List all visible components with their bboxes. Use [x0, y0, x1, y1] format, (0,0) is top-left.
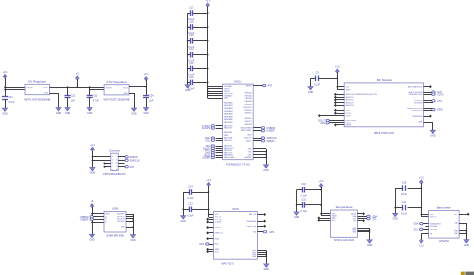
- svg-text:RESET_N: RESET_N: [215, 233, 224, 235]
- power flag +3.3 reg: [144, 73, 149, 80]
- svg-text:GND: GND: [89, 239, 95, 242]
- svg-text:RTS/DIO6: RTS/DIO6: [414, 102, 422, 104]
- terminal gps 219.2: [206, 218, 209, 221]
- capacitor C26: [401, 182, 408, 197]
- wire C9 to +3.3: [318, 78, 337, 80]
- ground G7 bank: [185, 85, 191, 92]
- wire baro scl: [422, 229, 429, 231]
- wire C21 to gnd: [5, 99, 7, 108]
- svg-text:+3.3: +3.3: [90, 144, 95, 147]
- wire gps rxd: [208, 244, 213, 246]
- svg-text:GND: GND: [56, 112, 62, 115]
- port SWDCLK mcu: [261, 137, 277, 140]
- capacitor C15: [301, 198, 308, 213]
- svg-text:CTS: CTS: [437, 100, 442, 103]
- junction C23: [89, 86, 91, 88]
- ground G15 gps: [264, 264, 270, 271]
- port SDA temp: [367, 215, 378, 218]
- power flag +3.3 bank: [205, 0, 210, 6]
- wire comms p6: [118, 163, 124, 165]
- wire MCU CTS: [216, 152, 223, 154]
- svg-text:5: 5: [112, 163, 113, 165]
- wire temp stub 220.2: [320, 220, 330, 222]
- svg-text:SLPO: SLPO: [437, 93, 444, 96]
- wire gps ANT_ON: [257, 214, 263, 216]
- baro right pin names: [454, 214, 459, 235]
- svg-text:PA11/RXD: PA11/RXD: [224, 127, 233, 130]
- svg-text:USBDP: USBDP: [266, 130, 275, 133]
- port GPS rxd: [199, 243, 209, 246]
- terminal comms p5: [104, 163, 106, 165]
- svg-text:GND: GND: [264, 268, 270, 271]
- svg-text:PA24/USBDM: PA24/USBDM: [241, 126, 252, 129]
- svg-text:PB22/D0: PB22/D0: [245, 110, 252, 112]
- svg-text:C9: C9: [315, 72, 319, 75]
- svg-text:C16: C16: [302, 183, 307, 186]
- svg-text:C17: C17: [189, 7, 194, 10]
- svg-text:C23: C23: [93, 94, 98, 97]
- terminal AD 97.2: [334, 96, 337, 99]
- port DOUT rf: [321, 122, 330, 125]
- wire +5 stub: [77, 79, 79, 87]
- svg-text:C18: C18: [189, 20, 194, 23]
- svg-text:SDA: SDA: [413, 223, 418, 226]
- wire comms p5: [105, 163, 111, 165]
- terminal baro int1: [467, 213, 470, 216]
- terminal gps 227.5: [206, 226, 209, 229]
- port SLEEPRQ: [432, 91, 442, 94]
- svg-text:SDO/SA0: SDO/SA0: [430, 225, 438, 228]
- svg-text:PB01/A2: PB01/A2: [245, 94, 252, 97]
- svg-text:+3.3: +3.3: [419, 245, 424, 248]
- wire MCU RTS: [216, 150, 223, 152]
- junction baro gnd rail: [394, 207, 396, 209]
- power flag +3.3 gps: [206, 179, 211, 186]
- power flag +3.3 baro: [419, 177, 424, 184]
- capacitor C12: [401, 201, 408, 216]
- wire comms rst: [118, 166, 126, 168]
- svg-text:GND: GND: [308, 91, 314, 94]
- terminal comms p7: [104, 166, 106, 168]
- wire RF AD stub 105.4: [337, 105, 345, 107]
- capacitor C15: [188, 62, 195, 77]
- svg-text:PA20/D6: PA20/D6: [245, 117, 252, 120]
- junction temp gnd: [369, 229, 371, 231]
- watermark logo: [461, 272, 474, 275]
- wire temp scl: [357, 218, 367, 220]
- capacitor C24: [143, 94, 154, 102]
- terminal RESERVED: [429, 115, 432, 118]
- svg-text:MCP1703T-3302E/MB: MCP1703T-3302E/MB: [104, 98, 130, 102]
- wire gps stub 222: [209, 222, 214, 224]
- svg-text:0.1uF: 0.1uF: [401, 213, 408, 216]
- wire temp sda: [357, 216, 367, 218]
- wire RF RESET stub: [337, 124, 345, 126]
- svg-text:PA06/AIN6: PA06/AIN6: [224, 118, 233, 121]
- wire baro pwr rail: [408, 183, 429, 217]
- svg-text:0.1uF: 0.1uF: [401, 193, 408, 196]
- svg-text:2: 2: [116, 156, 117, 158]
- svg-text:RESET: RESET: [246, 85, 253, 87]
- wire cap row C17: [188, 13, 208, 15]
- power flag +3.3 temp: [319, 180, 324, 187]
- port ONSLEEP: [432, 93, 444, 96]
- ground G4: [87, 108, 93, 115]
- svg-text:4.7uF: 4.7uF: [93, 99, 100, 102]
- ground G2: [56, 108, 62, 115]
- svg-text:C13: C13: [188, 203, 193, 206]
- svg-text:GND: GND: [181, 220, 187, 223]
- wire bank left rail: [187, 13, 189, 85]
- GPS right pin names: [246, 213, 257, 258]
- wire USBDM mcu: [253, 127, 262, 129]
- capacitor C9: [314, 72, 321, 87]
- ground G6: [143, 108, 149, 115]
- wire MCU power bundle: [208, 87, 223, 99]
- svg-text:GND: GND: [367, 244, 373, 247]
- svg-text:GND: GND: [65, 112, 71, 115]
- svg-text:SCL: SCL: [332, 220, 335, 222]
- svg-text:USBDP: USBDP: [80, 218, 89, 221]
- terminal temp addr: [362, 212, 365, 215]
- svg-text:GPS: GPS: [232, 207, 239, 211]
- svg-text:+3.3: +3.3: [206, 179, 211, 182]
- svg-text:SA0: SA0: [455, 222, 458, 225]
- port DOUT mcu: [203, 147, 214, 150]
- terminal gps ANT_ON: [263, 213, 266, 216]
- svg-text:GND: GND: [464, 244, 470, 247]
- wire gps stub 238.6: [209, 238, 214, 240]
- port USBDM usb: [80, 215, 94, 218]
- junction power bundle: [207, 86, 209, 88]
- terminal gps 222: [206, 221, 209, 224]
- wire RF SLEEPRQ: [424, 92, 434, 94]
- svg-text:PB11/SCK: PB11/SCK: [243, 107, 252, 109]
- connector J1 Comms: [103, 148, 126, 176]
- svg-text:RST: RST: [130, 166, 135, 169]
- power flag +3.3 rf: [335, 66, 340, 73]
- svg-text:VIN_HV: VIN_HV: [105, 87, 112, 89]
- svg-text:RSSI: RSSI: [437, 109, 443, 112]
- wire gps i2c stub 251.6: [209, 251, 214, 253]
- wire baro gnd: [459, 223, 466, 240]
- svg-text:GND: GND: [87, 112, 93, 115]
- wire usb vbus rail: [92, 207, 104, 235]
- MCU left pin names: [224, 85, 235, 159]
- svg-text:SLEEP: SLEEP: [202, 157, 210, 160]
- port RXGPS: [202, 127, 215, 130]
- voltage regulator U2 3.3V: [104, 80, 130, 102]
- svg-text:PA22/D8: PA22/D8: [245, 123, 252, 126]
- wire RF RTS: [424, 102, 434, 104]
- wire baro sda: [422, 223, 429, 225]
- svg-text:TIMEPULSE: TIMEPULSE: [246, 226, 257, 228]
- svg-text:9: 9: [112, 169, 113, 171]
- svg-text:10: 10: [116, 169, 118, 171]
- wire RF CTS: [424, 100, 434, 102]
- ground G18 baro caps: [393, 213, 399, 220]
- ground G10 RF: [430, 130, 436, 137]
- wire temp pwr rail: [305, 187, 331, 216]
- RF module U4 XBee: [344, 78, 423, 135]
- port SDA baro: [413, 222, 423, 225]
- svg-text:PWM1/DIO11: PWM1/DIO11: [412, 110, 423, 112]
- wire gps RESERVED: [257, 221, 263, 223]
- svg-text:MOUNT4: MOUNT4: [117, 221, 124, 223]
- svg-text:VCC_RF: VCC_RF: [215, 219, 222, 221]
- svg-text:DIO5: DIO5: [346, 110, 350, 112]
- port SWDIO mcu: [261, 140, 274, 143]
- svg-text:PB03/A4: PB03/A4: [245, 100, 252, 103]
- svg-text:Comms: Comms: [109, 148, 120, 152]
- port SCL temp: [367, 217, 378, 220]
- svg-text:ATSAMD21G TX-AU: ATSAMD21G TX-AU: [226, 163, 250, 167]
- svg-text:PB00/A1: PB00/A1: [245, 91, 252, 94]
- wire MCU SLEEP: [216, 157, 223, 159]
- port DIN mcu: [206, 145, 215, 148]
- port RSSI mcu: [204, 154, 214, 157]
- wire U2 gnd: [129, 93, 135, 108]
- power flag +3.3 comms: [90, 144, 95, 151]
- port SWDCLK comms: [125, 159, 140, 162]
- baro left pin names: [430, 214, 442, 236]
- port RTS mcu: [205, 149, 214, 152]
- terminal temp 220.2: [317, 219, 320, 222]
- wire gps stub 219.2: [209, 219, 214, 221]
- power flag +5 usb: [90, 200, 94, 207]
- svg-text:V_BCKP: V_BCKP: [215, 222, 223, 224]
- svg-text:GPS: GPS: [199, 243, 204, 246]
- ground G3: [65, 108, 71, 115]
- junction gps gnd: [266, 252, 268, 254]
- wire 5V output: [50, 87, 105, 89]
- svg-text:0.1uF: 0.1uF: [187, 214, 194, 217]
- svg-text:SCL: SCL: [205, 139, 210, 142]
- port TXGPS: [202, 125, 214, 128]
- svg-text:SCL: SCL: [414, 229, 419, 232]
- terminal AD 102.6: [334, 101, 337, 104]
- wire cap row C18: [188, 27, 208, 29]
- junction +3.3 out: [145, 86, 147, 88]
- svg-text:6: 6: [116, 163, 117, 165]
- svg-text:+3.3: +3.3: [335, 66, 340, 69]
- svg-text:PA05/AIN5: PA05/AIN5: [224, 115, 233, 118]
- port SLEEP mcu: [202, 156, 214, 159]
- svg-text:VCC_IO: VCC_IO: [215, 216, 222, 218]
- svg-text:PB23/D1: PB23/D1: [245, 113, 252, 115]
- svg-text:PA03/AIN1: PA03/AIN1: [224, 104, 233, 107]
- svg-text:RESERVED: RESERVED: [413, 116, 423, 118]
- capacitor C18: [188, 20, 195, 35]
- wire RF DIN: [328, 120, 344, 122]
- capacitor C13: [187, 203, 194, 218]
- wire gps txd: [257, 231, 264, 233]
- capacitor C16: [188, 76, 195, 91]
- svg-text:ANT_ON: ANT_ON: [249, 213, 257, 216]
- svg-text:3.3V Regulator: 3.3V Regulator: [106, 80, 127, 84]
- svg-text:8: 8: [116, 166, 117, 168]
- svg-text:SCL: SCL: [372, 218, 377, 221]
- junction comms: [92, 156, 94, 158]
- ground G1: [2, 108, 8, 115]
- wire RF RESERVED stub: [424, 116, 430, 118]
- power flag +5: [75, 73, 79, 80]
- svg-text:C24: C24: [149, 94, 154, 97]
- svg-text:SCL2: SCL2: [215, 251, 219, 253]
- USB pin names: [105, 214, 125, 229]
- svg-text:1: 1: [112, 156, 113, 158]
- svg-text:MCU: MCU: [234, 79, 241, 83]
- svg-text:GND: GND: [294, 216, 300, 219]
- svg-text:GND: GND: [143, 112, 149, 115]
- svg-text:PB02/A3: PB02/A3: [245, 97, 252, 100]
- wire comms swdclk: [118, 160, 126, 162]
- power flag +Vin: [3, 71, 8, 78]
- svg-text:MAX-7Q-0: MAX-7Q-0: [221, 261, 234, 265]
- connector J2 USB: [104, 207, 126, 238]
- svg-text:PA08/NMI: PA08/NMI: [224, 131, 232, 134]
- wire MCU gnd bundle: [253, 149, 266, 165]
- wire RF PWM0: [424, 108, 434, 110]
- MCU right pin names: [241, 85, 253, 159]
- svg-text:PPPC052LFBN-RC: PPPC052LFBN-RC: [103, 172, 126, 176]
- port RST: [263, 84, 266, 87]
- svg-text:VIN_HV: VIN_HV: [26, 87, 33, 89]
- ground G14 gps caps: [181, 216, 187, 223]
- svg-text:ASSOCIATE/DIO5: ASSOCIATE/DIO5: [408, 85, 422, 88]
- wire RF gnd: [424, 122, 433, 130]
- svg-text:PA25/USBDP: PA25/USBDP: [241, 129, 252, 132]
- svg-text:VDD_IO: VDD_IO: [430, 217, 437, 219]
- svg-text:XB24-Z7WIT-004: XB24-Z7WIT-004: [374, 131, 395, 135]
- svg-text:0.1uF: 0.1uF: [301, 210, 308, 213]
- terminal DIO 110.3: [334, 109, 337, 112]
- svg-text:+3.3: +3.3: [205, 0, 210, 3]
- svg-text:GND: GND: [130, 239, 136, 242]
- wire rf rail: [337, 72, 344, 90]
- svg-text:GND: GND: [131, 112, 137, 115]
- wire RF DIO stub 113.1: [337, 113, 345, 115]
- ground G9: [308, 87, 314, 94]
- junction usb: [91, 213, 93, 215]
- svg-text:C16: C16: [189, 76, 194, 79]
- capacitor C14: [187, 185, 194, 200]
- wire comms p7: [105, 166, 111, 168]
- wire gps stub 227.5: [209, 227, 214, 229]
- wire temp addr: [357, 213, 362, 215]
- port DIN rf: [318, 119, 329, 122]
- port SWDIO comms: [125, 156, 138, 159]
- svg-text:4: 4: [116, 159, 117, 161]
- svg-text:4.7uF: 4.7uF: [8, 101, 15, 104]
- svg-text:USB4-MR-SSB: USB4-MR-SSB: [106, 234, 124, 238]
- port RSSI rf: [432, 108, 443, 111]
- wire MCU DOUT: [216, 148, 223, 150]
- ground G17 temp: [367, 240, 373, 247]
- svg-text:AD4/DIO4: AD4/DIO4: [346, 104, 354, 107]
- svg-text:0.1uF: 0.1uF: [314, 83, 321, 86]
- svg-text:ON/SLEEP_DIO9: ON/SLEEP_DIO9: [408, 94, 422, 96]
- svg-text:C19: C19: [189, 34, 194, 37]
- terminal gps RESERVED: [263, 220, 266, 223]
- svg-text:PB08/AIN2: PB08/AIN2: [224, 107, 233, 110]
- wire bank right rail: [207, 6, 209, 98]
- wire SWDIO mcu: [253, 140, 262, 142]
- svg-text:SI7021-A20-GM1: SI7021-A20-GM1: [334, 238, 355, 242]
- barometer U7 LPS25H: [429, 206, 460, 244]
- wire C9 gnd: [311, 78, 316, 86]
- junction input: [4, 86, 6, 88]
- svg-text:PB10/M0: PB10/M0: [244, 104, 251, 106]
- terminal AD 99.9: [334, 98, 337, 101]
- svg-text:PA02/AIN0: PA02/AIN0: [224, 101, 233, 104]
- wire VIN input rail: [5, 77, 25, 96]
- capacitor C22: [65, 94, 76, 102]
- capacitor C16: [301, 183, 308, 198]
- svg-text:INT1: INT1: [454, 214, 458, 216]
- wire cap row C15: [188, 68, 208, 70]
- svg-text:PA21/D7: PA21/D7: [245, 120, 252, 123]
- svg-text:0.1uF: 0.1uF: [187, 197, 194, 200]
- svg-text:VREF: VREF: [346, 90, 351, 92]
- terminal temp nc: [362, 219, 365, 222]
- terminal DIO12: [318, 114, 321, 117]
- wire RF DIO12 stub: [321, 115, 345, 117]
- ground G19 baro: [464, 240, 470, 247]
- svg-text:0.1uF: 0.1uF: [301, 195, 308, 198]
- svg-text:DIO12: DIO12: [346, 115, 351, 117]
- wire C23 node: [90, 87, 105, 108]
- junction gps rail: [208, 191, 210, 193]
- svg-text:PA19/SLEEP: PA19/SLEEP: [224, 156, 235, 159]
- svg-text:GND: GND: [185, 89, 191, 92]
- ground G16 temp caps: [294, 212, 300, 219]
- svg-text:ADDR: ADDR: [351, 212, 357, 215]
- capacitor C14: [188, 48, 195, 63]
- svg-text:AD1/DIO1: AD1/DIO1: [346, 96, 354, 99]
- svg-text:RESERVED: RESERVED: [246, 221, 256, 223]
- ground G5: [131, 108, 137, 115]
- svg-text:C14: C14: [188, 185, 193, 188]
- terminal gps 238.6: [206, 237, 209, 240]
- connector pin numbers: [112, 156, 117, 171]
- svg-text:GPS: GPS: [269, 231, 274, 234]
- svg-text:+5: +5: [91, 200, 94, 203]
- wire cap row C14: [188, 54, 208, 56]
- wire RF AD stub 97.2: [337, 97, 345, 99]
- svg-text:C14: C14: [189, 48, 194, 51]
- svg-text:PB09/AIN3: PB09/AIN3: [224, 110, 233, 113]
- wire cap row C19: [188, 40, 208, 42]
- wire RF DOUT: [328, 122, 344, 124]
- wire RF ONSLEEP: [424, 94, 434, 96]
- svg-text:RxGPS: RxGPS: [202, 127, 210, 130]
- temp left pin names: [332, 213, 338, 222]
- wire RF AD stub 102.6: [337, 102, 345, 104]
- temp right pin names: [351, 212, 357, 233]
- wire temp gnd: [357, 228, 369, 240]
- svg-text:RST: RST: [268, 84, 273, 87]
- ground G11 comms: [90, 167, 96, 174]
- port SCL baro: [414, 228, 423, 231]
- ground G12 usb: [89, 234, 95, 241]
- svg-text:AD3/DIO3: AD3/DIO3: [346, 101, 354, 104]
- port USBDP usb: [80, 218, 93, 221]
- svg-text:SWDIO: SWDIO: [246, 140, 253, 142]
- svg-text:7: 7: [112, 166, 113, 168]
- svg-text:+5: +5: [76, 73, 79, 76]
- GPS module U5 MAX-7Q: [213, 207, 257, 265]
